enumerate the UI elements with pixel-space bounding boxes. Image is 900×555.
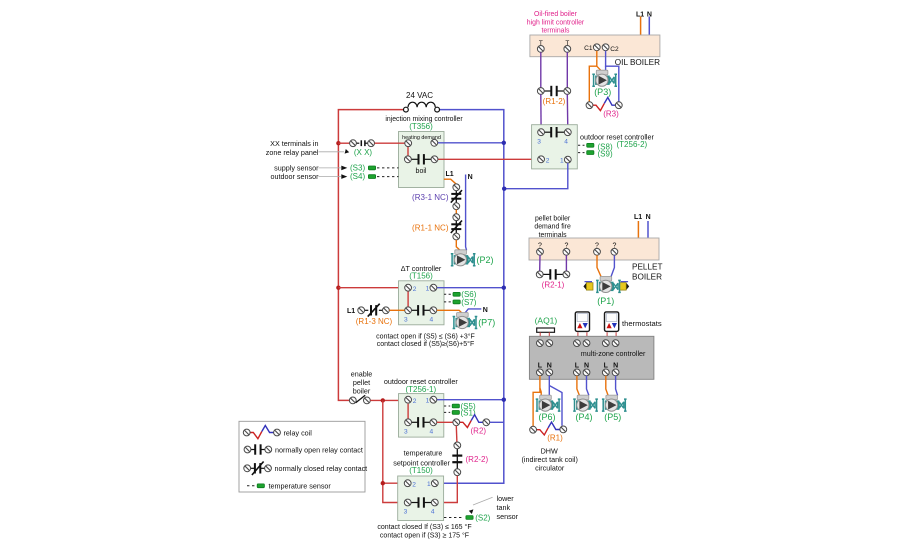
junction node on red bus at XX branch <box>336 141 340 145</box>
svg-text:contact open if (S5) ≤ (S6) +3: contact open if (S5) ≤ (S6) +3°F <box>376 332 475 340</box>
svg-text:2: 2 <box>412 481 416 488</box>
circulator pump P2 <box>451 250 476 266</box>
relay contact R1-2 <box>537 86 570 106</box>
circulator pump P1 with isolation flanges <box>583 276 629 306</box>
wire: orange pellet terminal to P1 <box>597 255 601 277</box>
junction node blue bus at T256-1 <box>502 398 506 402</box>
wire: purple drops to R2-1 <box>539 255 541 271</box>
temperature sensor S9 <box>578 150 613 159</box>
svg-text:demand fire: demand fire <box>534 224 571 231</box>
svg-text:(T156): (T156) <box>409 272 433 281</box>
terminal T256-1 3 <box>405 419 412 426</box>
svg-text:4: 4 <box>430 429 434 436</box>
legend box <box>239 421 365 492</box>
terminal T150 2 <box>404 480 411 487</box>
svg-text:C1: C1 <box>584 45 593 52</box>
wire: blue C2 to P3 and R3 <box>606 51 619 102</box>
svg-text:contact open if (S3) ≥ 175 °F: contact open if (S3) ≥ 175 °F <box>380 532 469 540</box>
terminal T156 2 <box>405 284 412 291</box>
wire: blue T256-2 terminal 1 to neutral bus <box>506 163 568 189</box>
svg-text:terminals: terminals <box>542 28 571 35</box>
terminal T150 3 <box>404 499 411 506</box>
contact inside T256-2 terminals 3-4 <box>545 127 565 137</box>
terminal T356 heating demand N <box>431 139 438 146</box>
svg-text:boiler: boiler <box>353 387 371 396</box>
svg-text:tank: tank <box>497 503 511 512</box>
svg-text:multi-zone controller: multi-zone controller <box>581 349 646 358</box>
svg-text:(T256-1): (T256-1) <box>405 385 436 394</box>
wire: blue N zone2 to P4 <box>587 376 589 396</box>
wire: red branch to T150 terminal 2 <box>383 482 404 484</box>
svg-text:L1: L1 <box>634 214 642 221</box>
junction node red at 382.8,400.4 <box>381 398 385 402</box>
svg-text:(R1-1 NC): (R1-1 NC) <box>412 223 449 232</box>
temperature sensor S5 <box>444 402 476 411</box>
wire: red bus to T156 terminal 2 <box>338 287 404 289</box>
circulator pump P7 <box>453 313 478 329</box>
svg-text:pellet boiler: pellet boiler <box>535 215 571 222</box>
svg-text:1: 1 <box>560 157 564 164</box>
svg-text:L1: L1 <box>347 308 355 315</box>
svg-text:(R1): (R1) <box>547 434 563 443</box>
svg-text:(R1-2): (R1-2) <box>543 97 566 106</box>
wire: orange L1 feed oil boiler <box>640 17 642 36</box>
wire: orange T156 terminal 4 to pump P7 <box>437 310 462 313</box>
svg-text:3: 3 <box>537 138 541 145</box>
svg-text:N: N <box>646 214 651 221</box>
junction node blue bus at 188.7 <box>502 187 506 191</box>
wire: blue T156 terminal 1 to neutral bus <box>437 287 504 289</box>
wire: red switch to T256-1 terminal 2 <box>370 399 404 401</box>
multi-zone thermostat terminals <box>537 340 544 347</box>
wire: orange L1 feed pellet boiler <box>637 221 639 238</box>
temperature sensor S1 <box>444 408 476 417</box>
terminal T256-2 1 <box>564 156 571 163</box>
contact boil inside T356 <box>411 154 431 175</box>
svg-text:(R3): (R3) <box>603 110 619 119</box>
wire: orange L1 stub to NC chain <box>444 179 457 184</box>
svg-text:contact closed if (S5)≥(S6)+5°: contact closed if (S5)≥(S6)+5°F <box>377 340 474 348</box>
temperature sensor S6 <box>444 290 477 299</box>
wire: red stubs thermostat 2 <box>606 332 608 339</box>
relay contact R2-2 <box>452 442 488 476</box>
svg-text:3: 3 <box>404 317 408 324</box>
temperature sensor S3 <box>350 163 399 172</box>
wire: purple T drops to R1-2 <box>540 52 542 87</box>
svg-text:2: 2 <box>413 286 417 293</box>
svg-text:relay coil: relay coil <box>284 428 313 437</box>
wire: orange C1 to P3 and R3 <box>589 51 597 102</box>
relay coil R3 <box>586 97 622 118</box>
svg-text:(P2): (P2) <box>477 255 494 265</box>
svg-text:(P5): (P5) <box>604 412 621 422</box>
transformer 24 VAC <box>404 91 440 112</box>
svg-text:(P7): (P7) <box>478 318 495 328</box>
terminal T156 4 <box>430 307 437 314</box>
svg-text:sensor: sensor <box>497 512 519 521</box>
circulator pump P3 <box>592 70 617 86</box>
svg-text:outdoor sensor: outdoor sensor <box>271 172 320 181</box>
controller box T150 <box>398 476 444 521</box>
wire: blue neutral bus from transformer right down right side to T150 terminal 1 <box>438 110 504 484</box>
wire: blue N feed pellet boiler <box>647 221 649 238</box>
svg-text:C2: C2 <box>610 46 619 53</box>
svg-text:(R1-3 NC): (R1-3 NC) <box>356 317 393 326</box>
wire: orange R1-3 to T156 terminal 3 <box>389 309 404 311</box>
wire: red R2-2 down to T150 terminal 4 <box>438 476 457 503</box>
wire: purple R1-2 drops to T256-2 <box>540 94 542 128</box>
temperature sensor S8 <box>578 142 613 151</box>
svg-text:1: 1 <box>427 481 431 488</box>
svg-text:(S7): (S7) <box>461 298 476 307</box>
temperature sensor S4 <box>350 172 399 181</box>
junction node red at T150 <box>381 481 385 485</box>
wire: red drop to T150 <box>383 400 404 502</box>
terminal T256-2 3 <box>538 129 545 136</box>
svg-text:(P4): (P4) <box>575 412 592 422</box>
wire: blue N feed oil boiler <box>648 17 650 36</box>
circulator pump P6 <box>536 395 561 411</box>
svg-text:(AQ1): (AQ1) <box>535 315 558 325</box>
relay coil R1 <box>530 422 567 443</box>
svg-text:(T356): (T356) <box>409 122 433 131</box>
wire: red T356 boil output to T256-2 terminal 2 <box>438 158 538 160</box>
svg-text:(S2): (S2) <box>475 513 490 522</box>
switch enable pellet boiler <box>349 395 370 404</box>
multi-zone controller box <box>529 336 654 379</box>
junction node red bus at T156 <box>336 286 340 290</box>
terminal T256-1 4 <box>430 419 437 426</box>
legend normally closed relay contact <box>244 462 367 476</box>
wire: orange NC chain to pump P2 <box>456 240 460 250</box>
wire: red bus to XX contact <box>338 142 349 144</box>
wire: red XX contact to T356 terminal <box>375 142 405 144</box>
svg-text:normally closed relay contact: normally closed relay contact <box>275 464 368 473</box>
cursor arrow at (X X) <box>345 149 350 154</box>
svg-text:(R2-1): (R2-1) <box>542 281 565 290</box>
svg-text:temperature sensor: temperature sensor <box>269 482 332 491</box>
svg-text:(P6): (P6) <box>538 412 555 422</box>
wire: red stubs thermostat 1 <box>577 332 579 339</box>
temperature sensor S2 <box>444 513 491 522</box>
svg-text:lower: lower <box>497 494 515 503</box>
circulator pump P4 <box>573 395 598 411</box>
svg-text:N: N <box>483 307 488 314</box>
wire: red R2 junction down to R2-2 <box>455 426 458 442</box>
wire: blue N drop to pump P2 <box>466 175 467 251</box>
terminal T356 boil right <box>431 156 438 163</box>
wire: red stubs AQ1 to controller <box>539 332 541 339</box>
wire: orange L zone2 to P4 <box>577 376 580 396</box>
wire: red hot bus from transformer L down left side to enable switch <box>338 110 403 401</box>
leader line to (X X) <box>319 151 345 153</box>
wire: blue T356 heating demand to neutral bus <box>438 142 504 144</box>
svg-text:(R3-1 NC): (R3-1 NC) <box>412 193 449 202</box>
wire: orange between NC chains <box>455 210 457 214</box>
svg-text:L1: L1 <box>446 171 454 178</box>
oil boiler box <box>530 35 660 57</box>
svg-text:BOILER: BOILER <box>632 272 662 281</box>
controller box T156 <box>399 281 445 325</box>
svg-text:(S4): (S4) <box>350 172 365 181</box>
temperature sensor S7 <box>444 298 477 307</box>
relay contact R1-1 NC <box>412 214 462 240</box>
svg-text:(S3): (S3) <box>350 163 365 172</box>
svg-text:3: 3 <box>404 509 408 516</box>
svg-text:contact closed If (S3) ≤ 165 °: contact closed If (S3) ≤ 165 °F <box>377 523 471 531</box>
svg-text:2: 2 <box>546 157 550 164</box>
junction node blue bus <box>502 141 506 145</box>
svg-text:PELLET: PELLET <box>632 262 663 271</box>
contact inside T156 terminals 3-4 <box>412 305 431 315</box>
legend normally open relay contact <box>244 444 363 454</box>
thermostat 2 <box>605 312 619 332</box>
svg-text:high limit controller: high limit controller <box>527 19 585 26</box>
svg-text:circulator: circulator <box>535 464 565 473</box>
svg-text:4: 4 <box>564 138 568 145</box>
svg-text:normally open relay contact: normally open relay contact <box>275 445 363 454</box>
svg-text:XX terminals in: XX terminals in <box>270 139 318 148</box>
relay contact R2-1 <box>536 269 570 289</box>
relay contact R1-3 NC <box>356 304 393 327</box>
controller box T356 <box>399 132 445 188</box>
pellet boiler box <box>529 238 659 260</box>
terminal T150 4 <box>431 499 438 506</box>
svg-text:supply sensor: supply sensor <box>274 163 319 172</box>
svg-text:4: 4 <box>430 317 434 324</box>
wire: blue N zone3 to P5 <box>616 376 618 396</box>
svg-text:(S9): (S9) <box>598 150 613 159</box>
wire: red T256-1 terminal 4 to R2 coil <box>437 421 453 423</box>
svg-text:N: N <box>468 174 473 181</box>
wire: red internal T156 terminal 2 to 3 <box>407 291 409 307</box>
terminal T256-1 1 <box>430 396 437 403</box>
svg-text:boil: boil <box>416 168 427 175</box>
junction node blue bus at T156 <box>502 286 506 290</box>
contact inside T256-1 terminals 3-4 <box>412 417 431 427</box>
svg-text:(P1): (P1) <box>597 296 614 306</box>
svg-text:OIL BOILER: OIL BOILER <box>615 58 660 67</box>
wire: blue pellet terminal to P1 <box>611 255 615 277</box>
svg-text:1: 1 <box>426 286 430 293</box>
legend temperature sensor <box>247 482 331 491</box>
relay contact (X X) in zone relay panel <box>350 140 375 157</box>
terminal T156 1 <box>430 284 437 291</box>
svg-text:(T256-2): (T256-2) <box>617 140 648 149</box>
svg-text:(R2): (R2) <box>471 427 487 436</box>
terminal T356 boil left <box>405 156 412 163</box>
circulator pump P5 <box>602 395 627 411</box>
svg-text:temperature: temperature <box>404 448 443 457</box>
terminal T256-2 2 <box>538 156 545 163</box>
terminal C2 <box>602 44 609 51</box>
wire: blue R2 coil to neutral bus <box>490 421 504 423</box>
svg-text:3: 3 <box>404 429 408 436</box>
multi-zone output terminals <box>537 369 544 376</box>
terminal T356 heating demand L <box>405 140 412 147</box>
svg-text:2: 2 <box>413 398 417 405</box>
terminal T256-1 2 <box>405 396 412 403</box>
controller box T256-2 <box>532 125 578 169</box>
relay contact R3-1 NC <box>412 184 462 210</box>
legend relay coil <box>243 426 312 439</box>
wire: blue N zone1 to P6 and R1 <box>548 376 550 396</box>
wire: red internal T256-1 terminal 2 to 3 <box>407 404 409 419</box>
wire: blue N to pump P7 <box>465 309 482 313</box>
svg-text:(R2-2): (R2-2) <box>466 455 489 464</box>
svg-text:Oil-fired boiler: Oil-fired boiler <box>534 11 578 18</box>
svg-text:thermostats: thermostats <box>622 319 662 328</box>
cursor arrow at S2 <box>469 509 474 514</box>
svg-text:(P3): (P3) <box>594 87 611 97</box>
svg-text:zone relay panel: zone relay panel <box>266 148 319 157</box>
wire: orange L zone1 to P6 and R1 <box>533 376 540 427</box>
controller box T256-1 <box>399 394 444 438</box>
svg-text:24 VAC: 24 VAC <box>406 91 433 100</box>
svg-text:(T150): (T150) <box>409 466 433 475</box>
terminal T256-2 4 <box>564 129 571 136</box>
wire: red internal T356 left terminals <box>407 146 409 156</box>
wire: blue T256-1 terminal 1 to neutral bus <box>437 399 504 401</box>
svg-text:1: 1 <box>426 398 430 405</box>
terminal T156 3 <box>405 307 412 314</box>
svg-text:(X X): (X X) <box>354 148 373 157</box>
terminal T150 1 <box>431 480 438 487</box>
thermostat 1 <box>575 312 589 332</box>
aquastat AQ1 <box>537 328 555 332</box>
wire: orange L zone3 to P5 <box>606 376 608 396</box>
contact inside T150 terminals 3-4 <box>411 497 431 507</box>
relay coil R2 <box>453 415 490 436</box>
svg-text:4: 4 <box>431 509 435 516</box>
